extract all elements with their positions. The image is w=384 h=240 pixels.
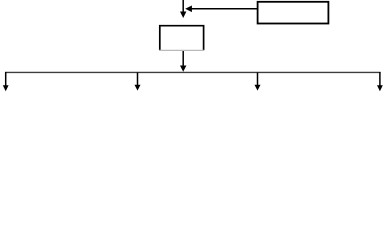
box B2 (small middle rectangle) xyxy=(160,26,204,50)
arrowhead (downward, left end) xyxy=(3,85,9,91)
wire (light bottom edge of box B2) xyxy=(159,49,204,51)
wire (top vertical segment entering from top edge) xyxy=(182,0,184,12)
wire (drop arrow at x=137) xyxy=(137,73,139,86)
wire (vertical arrow from box B2 down to bus line) xyxy=(182,51,184,66)
arrowhead (downward at x=137) xyxy=(135,85,141,91)
arrowhead (leftward, tip at vertical wire) xyxy=(185,6,192,13)
wire (horizontal arrow from box B1 pointing left) xyxy=(192,8,258,10)
wire (drop arrow at x=257) xyxy=(257,73,259,86)
arrowhead (downward, tip at junction above small box) xyxy=(180,12,186,19)
box B1 (top-right rectangle) xyxy=(258,2,329,24)
wire (long horizontal bus line) xyxy=(5,71,381,73)
arrowhead (downward, right end) xyxy=(377,85,383,91)
arrowhead (downward, tip at bus line) xyxy=(180,66,186,72)
wire (right end drop) xyxy=(379,72,381,86)
wire (left end drop) xyxy=(5,72,7,86)
arrowhead (downward at x=257) xyxy=(255,85,261,91)
